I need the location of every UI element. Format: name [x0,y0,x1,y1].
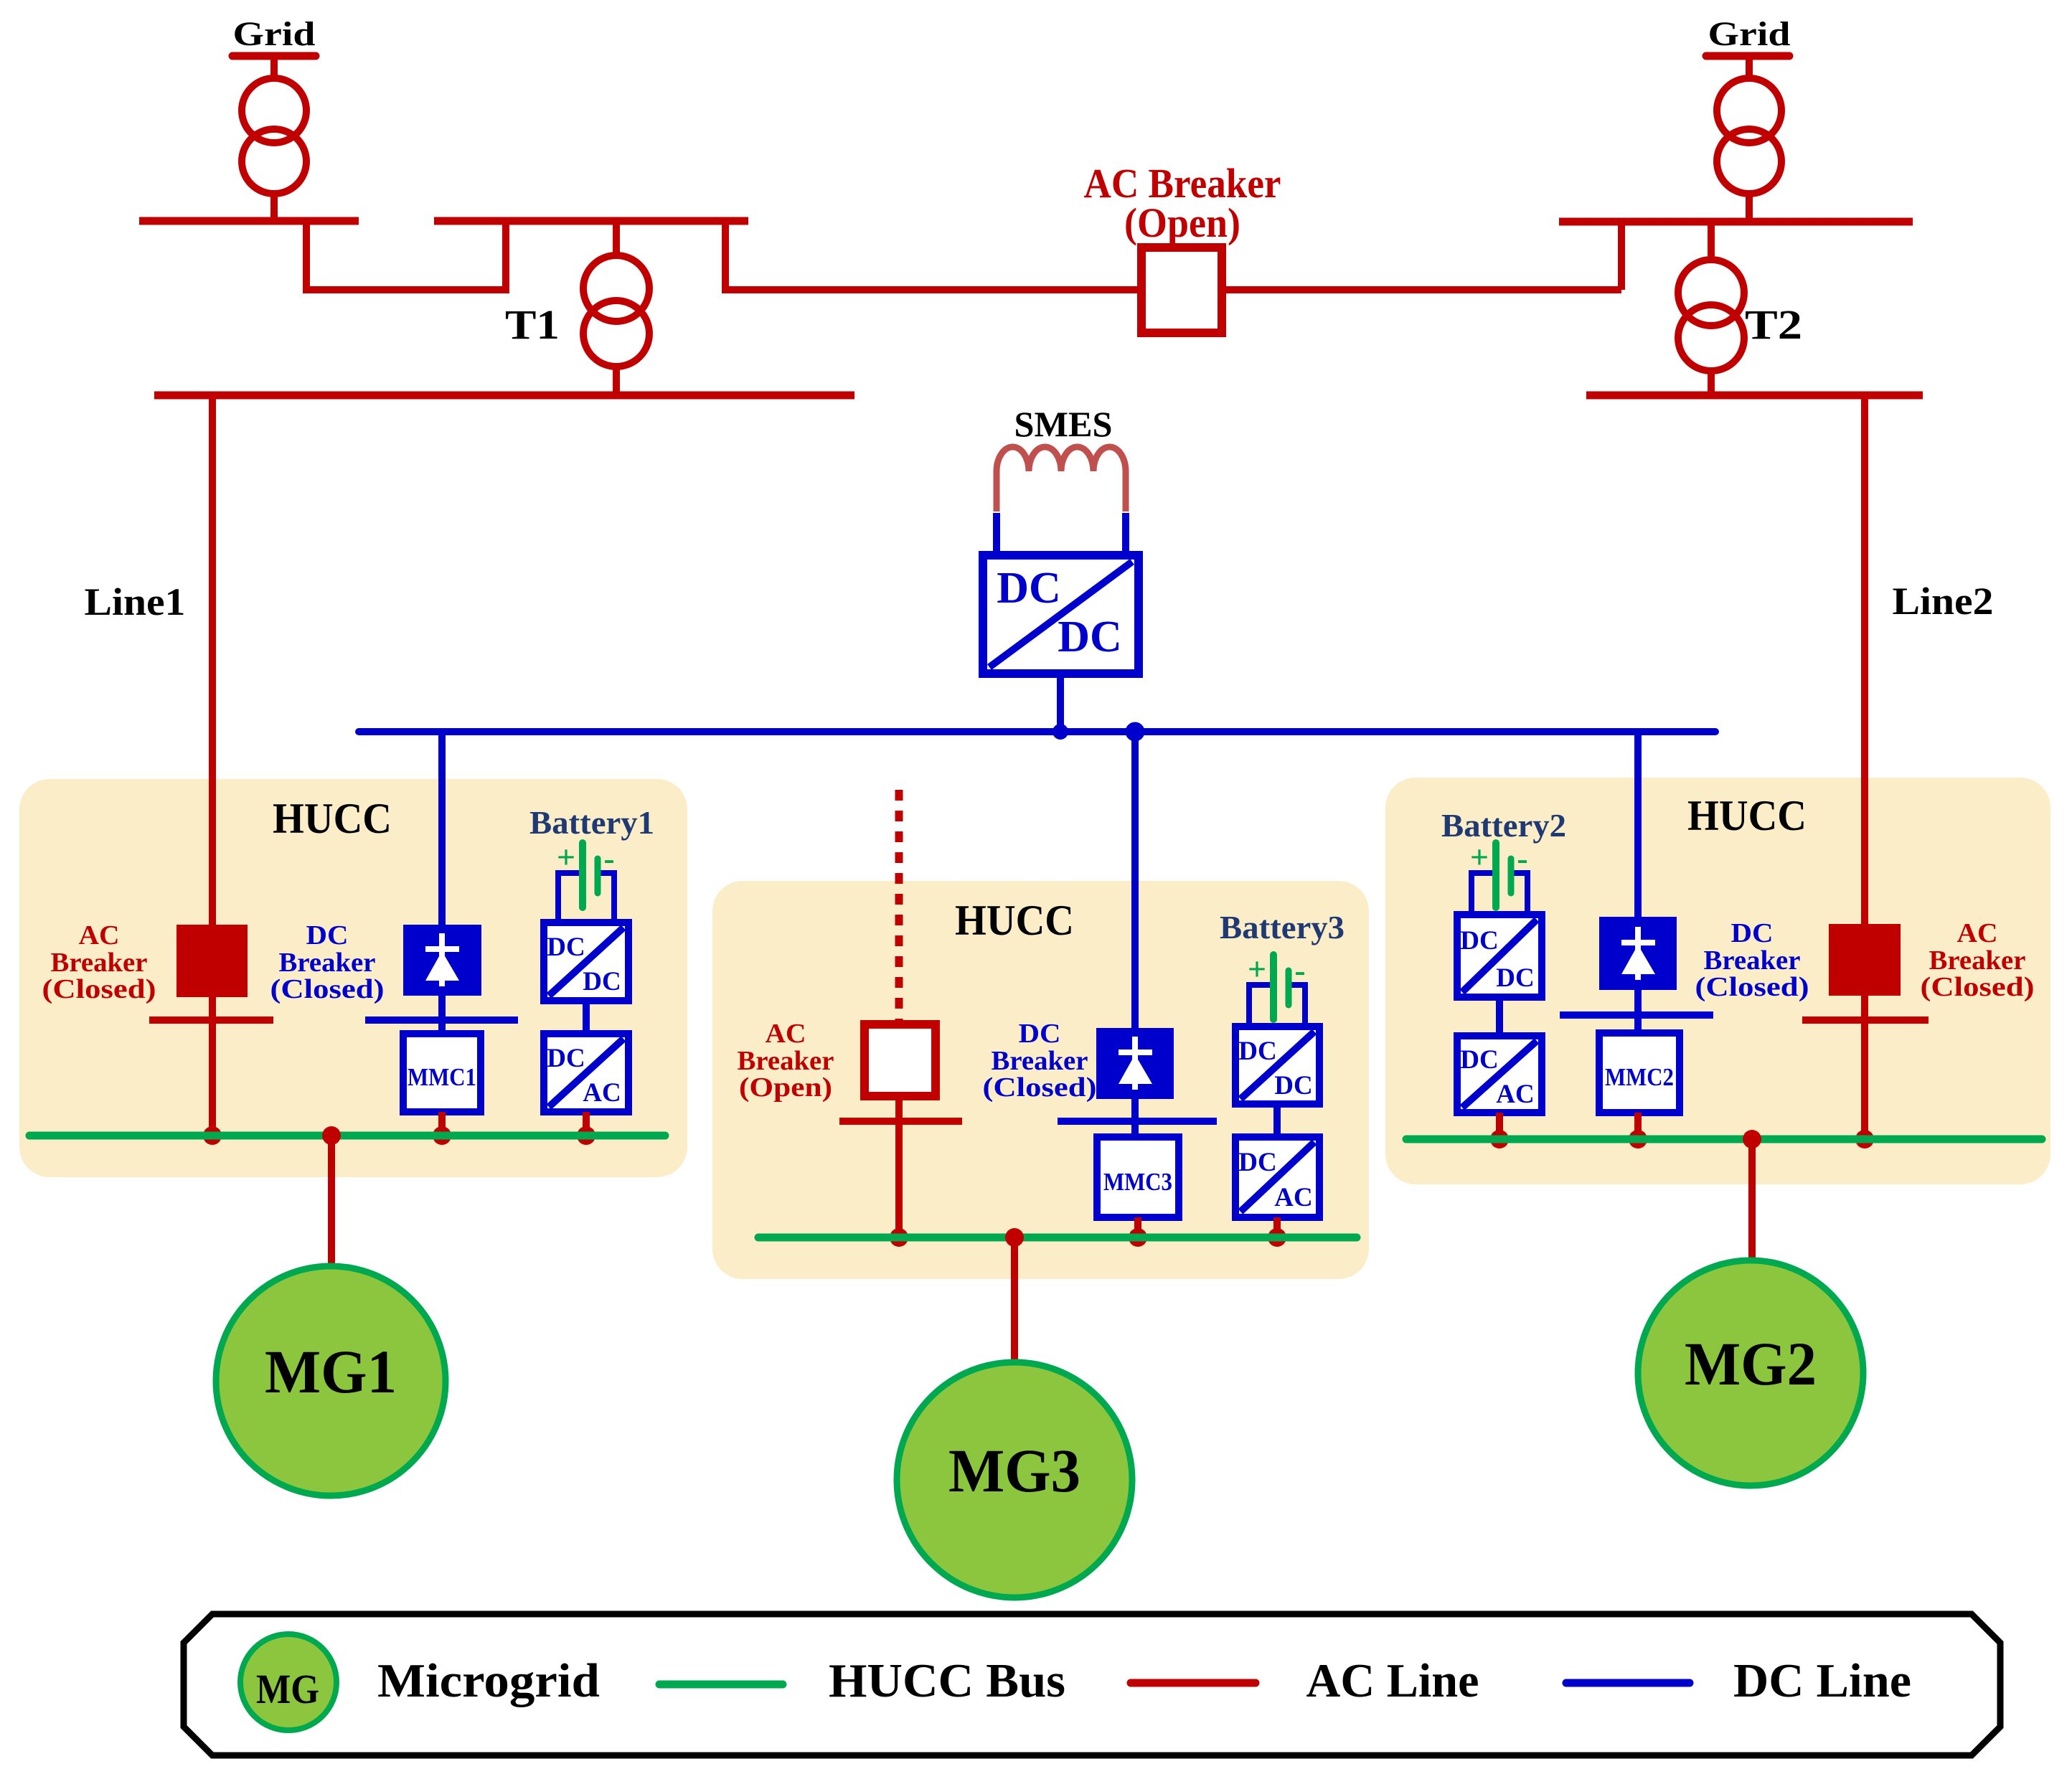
wire bus2 to T1 [613,221,620,257]
Line1 wire [209,395,216,928]
svg-text:AC: AC [583,1078,621,1108]
svg-text:MG2: MG2 [1685,1329,1817,1398]
legend microgrid symbol [240,1634,336,1730]
wire grid2 to transformer [1746,56,1753,80]
node MG1 tap [322,1126,341,1145]
wire dashed AC line to breaker3 [895,790,903,1024]
svg-text:Battery1: Battery1 [529,804,654,841]
AC breaker3 tick [839,1118,962,1125]
svg-text:Grid: Grid [1708,15,1791,53]
wire coil to converter (blue) [993,513,1000,560]
svg-text:AC: AC [1957,918,1998,948]
battery 3 symbol [1248,950,1306,1027]
DC Breaker (Closed) label right [1695,918,1809,1002]
wire MMC1 to HUCC bus [438,1112,446,1136]
HUCC bus 2 (right, green) [1406,1136,2042,1143]
svg-text:DC: DC [1238,1037,1276,1066]
svg-text:DC: DC [547,1044,585,1073]
wire AC tie line left segment [722,286,1145,293]
battery1 DC/AC converter [544,1034,628,1112]
grid source 2 label [1706,15,1791,56]
wire DC breaker1 to MMC1 [438,996,446,1037]
svg-text:Breaker: Breaker [738,1046,834,1076]
legend AC line swatch [1131,1679,1256,1687]
SMES coil end stubs [994,470,1000,511]
svg-text:AC: AC [1496,1080,1534,1109]
bus bar top-left B [434,217,748,225]
microgrid MG1 [216,1266,446,1496]
HUCC block 1 background (left) [19,779,687,1177]
node MMC2-bus [1629,1130,1647,1148]
battery3 DC/AC converter [1235,1137,1319,1217]
svg-text:+: + [1470,839,1489,875]
svg-text:DC: DC [583,967,621,996]
svg-text:DC: DC [1460,926,1498,956]
svg-text:Breaker: Breaker [51,948,148,978]
grid source 1 label [232,15,316,56]
AC Breaker (Closed) label right [1921,918,2035,1002]
wire jog bus1 to bus2 [306,221,506,290]
svg-text:MG1: MG1 [265,1337,397,1406]
svg-text:Line1: Line1 [85,580,186,623]
battery3 DC/DC converter [1235,1027,1319,1104]
svg-text:AC: AC [79,920,120,950]
svg-text:DC Line: DC Line [1733,1654,1911,1707]
svg-text:Breaker: Breaker [1704,945,1801,976]
wire grid1 to transformer [270,56,278,80]
SMES DC/DC converter U-SMES [983,555,1139,674]
AC Breaker (Closed) label left [42,920,156,1004]
node AC breaker3-bus [890,1228,908,1247]
node battery2-bus [1490,1130,1509,1148]
node MMC3 feeder [1126,722,1145,742]
HUCC bus 1 (left, green) [29,1132,665,1140]
wire up to bus3 [1618,222,1625,290]
svg-text:+: + [1248,950,1266,987]
legend DC line swatch [1566,1679,1690,1687]
svg-text:-: - [603,840,614,877]
wire HUCC bus3 to MG3 [1011,1237,1018,1364]
DC breaker2 tick [1560,1011,1713,1019]
wire battery1 to HUCC bus [583,1112,590,1136]
microgrid MG3 [897,1362,1132,1598]
DC Breaker (Closed) label left [270,920,385,1004]
svg-text:SMES: SMES [1014,404,1113,444]
transformer grid1 [242,78,306,194]
wire DC feeder to MMC3 column [1131,732,1139,1032]
node battery3-bus [1268,1228,1286,1247]
DC bus [359,728,1715,735]
svg-text:-: - [1517,840,1527,877]
svg-text:DC: DC [306,920,349,950]
MMC3 converter [1097,1137,1179,1217]
transformer grid2 [1717,78,1781,194]
wire T1 to lower bus left [613,367,620,395]
HUCC bus 3 (middle, green) [758,1234,1357,1242]
MMC2 converter [1599,1033,1680,1113]
svg-text:AC: AC [766,1019,806,1049]
lower bus right [1586,392,1923,400]
svg-text:MMC2: MMC2 [1605,1063,1674,1091]
node MMC1-bus [433,1126,451,1145]
svg-text:MG: MG [256,1666,319,1712]
node MG3 tap [1005,1228,1024,1247]
wire AC breaker1 to bus [209,997,216,1136]
wire DC breaker2 to MMC2 [1634,990,1642,1037]
wire bus3 to T2 [1708,222,1715,260]
lower bus left [154,392,854,400]
wire bus2 down to AC tie line [722,221,729,290]
wire battery3 converters [1273,1104,1281,1137]
svg-text:Breaker: Breaker [992,1046,1088,1076]
svg-text:-: - [1294,952,1305,989]
svg-text:AC: AC [1274,1183,1312,1212]
svg-text:(Closed): (Closed) [42,974,156,1004]
node MMC3-bus [1129,1228,1147,1247]
svg-text:T2: T2 [1745,301,1802,348]
svg-text:T1: T1 [505,301,560,348]
AC breaker2 tick [1802,1016,1929,1024]
svg-text:Breaker: Breaker [1929,945,2026,976]
MMC1 converter [403,1034,481,1112]
wire transformer2 to bus3 [1746,194,1753,222]
AC Breaker (Open) top label [1084,160,1281,246]
wire battery3 to HUCC bus [1273,1217,1281,1237]
DC breaker 2 (diode box) [1599,917,1677,990]
svg-text:(Closed): (Closed) [270,974,385,1004]
svg-text:DC: DC [1496,963,1534,993]
svg-text:HUCC: HUCC [955,897,1074,944]
DC Breaker (Closed) label middle [983,1019,1097,1103]
microgrid MG2 [1638,1260,1863,1486]
wire DC feeder to MMC1 column [438,732,446,928]
node battery1-bus [577,1126,595,1145]
svg-text:DC: DC [1731,918,1774,948]
svg-text:AC Line: AC Line [1306,1654,1479,1707]
svg-text:Battery3: Battery3 [1220,909,1345,945]
svg-text:Breaker: Breaker [279,948,376,978]
wire AC tie line right segment [1222,286,1621,293]
battery2 DC/AC converter [1457,1036,1542,1113]
battery2 DC/DC converter [1457,915,1542,997]
bus bar top-right [1559,218,1913,226]
svg-text:(Closed): (Closed) [1695,972,1809,1002]
node SMES-DC bus [1053,724,1068,740]
AC Breaker (Open) label middle [738,1019,834,1103]
wire battery1 converters [583,1001,590,1034]
svg-text:(Closed): (Closed) [983,1072,1097,1103]
svg-text:(Closed): (Closed) [1921,972,2035,1002]
svg-text:(Open): (Open) [739,1072,832,1103]
wire DC feeder to MMC2 column [1634,732,1642,920]
svg-text:MMC1: MMC1 [408,1063,476,1091]
wire battery2 to HUCC bus [1496,1113,1503,1139]
wire transformer1 to bus1 [270,194,278,221]
HUCC block 3 background (middle) [712,881,1369,1279]
svg-text:HUCC: HUCC [1687,792,1807,839]
legend box [184,1614,2000,1755]
Line2 wire [1861,395,1868,928]
svg-text:HUCC: HUCC [273,795,392,842]
wire T2 to lower bus right [1708,371,1715,395]
DC breaker 1 (diode box) [403,925,481,996]
svg-text:DC: DC [1238,1148,1276,1177]
battery 1 symbol [557,839,615,923]
wire HUCC bus2 to MG2 [1748,1139,1756,1261]
wire MMC2 to HUCC bus [1634,1113,1642,1139]
svg-text:+: + [557,839,575,875]
AC breaker1 tick [149,1016,273,1024]
svg-text:DC: DC [1274,1071,1312,1100]
HUCC block 2 background (right) [1385,778,2050,1184]
AC breaker top open square [1141,247,1222,333]
AC breaker 2 closed square [1829,924,1901,996]
svg-text:HUCC Bus: HUCC Bus [829,1654,1065,1707]
transformer T2 [1678,260,1744,371]
DC breaker1 tick [365,1016,518,1024]
SMES inductor coil [997,447,1126,471]
battery1 DC/DC converter [544,923,628,1001]
svg-text:DC: DC [1460,1045,1498,1075]
svg-text:MMC3: MMC3 [1103,1168,1172,1196]
wire AC breaker3 to bus [895,1096,903,1237]
wire AC breaker2 to bus [1861,996,1868,1139]
DC breaker3 tick [1058,1118,1217,1125]
DC breaker 3 (diode box) [1096,1028,1174,1099]
legend HUCC bus swatch [659,1681,783,1689]
svg-text:Microgrid: Microgrid [377,1654,600,1707]
wire battery2 converters [1496,997,1503,1036]
node Line1-HUCC bus [203,1126,222,1145]
bus bar top-left A [139,217,359,225]
svg-text:Line2: Line2 [1893,580,1994,623]
wire SMES converter to DC bus [1057,674,1064,732]
svg-text:Battery2: Battery2 [1441,807,1566,844]
svg-text:(Open): (Open) [1124,199,1240,246]
svg-text:DC: DC [1019,1019,1061,1049]
svg-text:MG3: MG3 [948,1436,1080,1505]
wire HUCC bus1 to MG1 [328,1136,335,1268]
svg-text:DC: DC [1058,613,1122,661]
AC breaker 1 closed square [176,925,248,997]
svg-text:DC: DC [997,564,1061,613]
node MG2 tap [1743,1130,1761,1148]
svg-text:Grid: Grid [233,15,316,53]
svg-text:DC: DC [547,933,585,962]
transformer T1 [583,255,649,367]
wire MMC3 to HUCC bus [1134,1217,1141,1237]
wire DC breaker3 to MMC3 [1131,1099,1139,1141]
battery 2 symbol [1470,839,1528,915]
AC breaker 3 open square [865,1024,936,1096]
node Line2-HUCC bus [1855,1130,1874,1148]
